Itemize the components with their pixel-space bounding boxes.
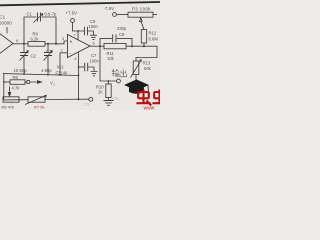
svg-text:-7.5V: -7.5V [104, 6, 115, 11]
resistor R8 [4, 81, 10, 83]
svg-text:+: + [70, 40, 73, 46]
wire R11 to right corner [126, 46, 157, 61]
svg-text:20000: 20000 [0, 21, 12, 26]
bottom rail 1 [3, 74, 79, 76]
wire C9 branch left [100, 38, 112, 46]
junction C9 right [131, 45, 133, 47]
watermark 虫虫 red glyphs (drawn) [136, 90, 160, 106]
resistor R9 box [28, 42, 45, 47]
P3 right stub [153, 14, 157, 16]
node A junction [23, 43, 25, 45]
rheostat R7 arrow [25, 95, 47, 104]
svg-text:10k: 10k [107, 56, 115, 61]
svg-text:100n: 100n [90, 59, 100, 64]
svg-text:P3 100k: P3 100k [132, 7, 151, 12]
ground C7 [91, 72, 98, 76]
svg-text:4-60p: 4-60p [41, 68, 52, 73]
svg-text:4.7k: 4.7k [12, 86, 21, 91]
ground C8 [90, 35, 97, 39]
svg-text:3: 3 [62, 37, 64, 41]
svg-text:R8: R8 [13, 75, 19, 80]
junction pin7 rail [77, 30, 79, 32]
left vertical wire [3, 74, 5, 100]
svg-text:R12: R12 [149, 31, 157, 36]
resistor R11 box [104, 43, 126, 48]
op-amp U2 (IC2 F3140) [68, 35, 91, 58]
svg-text:R6 47k: R6 47k [2, 105, 15, 110]
pin 4 stub wire [78, 52, 80, 100]
svg-text:R13: R13 [143, 61, 151, 66]
svg-text:C3: C3 [46, 49, 52, 54]
R13 arrow [131, 60, 142, 78]
capacitor C7 branch [79, 66, 85, 68]
wire R9 to node B [45, 41, 68, 44]
svg-text:4: 4 [75, 57, 77, 61]
svg-text:1.5: 1.5 [84, 103, 89, 107]
wire R8 to terminal [25, 81, 27, 83]
arrow V1 [31, 81, 42, 84]
wire output pin6 [90, 45, 104, 47]
resistor R10 box [108, 81, 110, 84]
svg-text:50k: 50k [144, 66, 152, 71]
terminal circle bottom [89, 97, 93, 101]
svg-text:6: 6 [16, 39, 18, 43]
terminal circle V1 [27, 80, 30, 83]
rheostat R7 box [28, 97, 45, 102]
wire IC1 output to node A [13, 43, 28, 45]
svg-text:6.8M: 6.8M [149, 37, 159, 42]
svg-text:0.9-7p: 0.9-7p [45, 12, 58, 17]
wire +7.5V down to pin7 rail [73, 22, 85, 31]
capacitor C3 trimmer [47, 44, 49, 52]
potentiometer R13 box [133, 61, 139, 75]
wire output tap down [100, 46, 117, 81]
watermark graduation cap logo [124, 80, 150, 95]
trimpot R6 box [3, 97, 19, 102]
junction output node [99, 45, 101, 47]
svg-text:10-80p: 10-80p [14, 68, 28, 73]
svg-text:+7.5V: +7.5V [66, 11, 78, 16]
capacitor C9 plates [113, 34, 116, 42]
svg-text:IC2: IC2 [57, 65, 64, 70]
potentiometer P3 box [128, 12, 153, 17]
label 输出 (drawn glyphs) [112, 69, 127, 77]
capacitor C1 trimmer plates [38, 13, 41, 22]
node C3 junction [47, 43, 49, 45]
wire C9 branch right [117, 38, 132, 46]
svg-text:www: www [144, 106, 155, 111]
svg-text:C2: C2 [31, 54, 37, 59]
junction R10 top [108, 80, 110, 82]
svg-text:6: 6 [93, 42, 95, 46]
svg-text:430p: 430p [117, 26, 127, 31]
pin 7 stub wire [77, 31, 79, 40]
wire R13 bottom [135, 75, 137, 82]
node B junction [55, 43, 57, 45]
wire C8 to ground [88, 31, 94, 35]
svg-text:6.2k: 6.2k [31, 36, 40, 41]
op-amp U1 (IC1, clipped at left edge) [0, 27, 13, 59]
junction R12 node [143, 45, 145, 47]
pin 2 stub wire [60, 53, 68, 75]
resistor R12 box [141, 30, 146, 43]
svg-text:C7: C7 [91, 53, 97, 58]
capacitor C2 trimmer [23, 44, 25, 52]
capacitor C8 plates [85, 27, 88, 35]
capacitor C1 trimmer arrow [34, 14, 44, 23]
wire R12 to output wire [143, 43, 145, 46]
trimpot R6 arrow [8, 87, 11, 97]
svg-text:R7 5k: R7 5k [34, 105, 44, 110]
P3 wiper arrow [140, 18, 145, 30]
svg-text:2: 2 [61, 49, 63, 53]
wire node A up left leg of C1 [24, 17, 37, 44]
ground R10 [108, 98, 110, 101]
svg-text:100n: 100n [89, 24, 99, 29]
wire C1 right to node B [42, 17, 57, 44]
svg-text:4.5±: 4.5± [112, 97, 119, 101]
svg-text:IC1: IC1 [0, 15, 6, 20]
bottom rail 2 [4, 98, 89, 101]
terminal circle output [117, 79, 121, 83]
top border line [0, 2, 160, 5]
wire -7.5V to P3 [116, 14, 128, 16]
svg-text:C1: C1 [27, 12, 33, 17]
svg-text:C9: C9 [119, 32, 125, 37]
svg-text:7: 7 [74, 34, 76, 38]
